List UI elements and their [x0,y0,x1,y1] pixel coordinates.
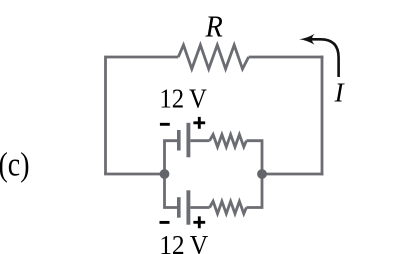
wire top-left segment [106,56,179,59]
svg-text:12 V: 12 V [159,84,207,114]
wire right side [321,56,324,176]
wire top branch right [246,141,262,174]
wire bottom-right [262,173,323,176]
wire top branch middle [190,139,209,142]
wire bottom branch middle [190,206,209,209]
battery B2 positive plate [186,190,190,224]
svg-text:I: I [334,77,346,107]
battery B2 minus sign [160,221,170,224]
current arrow [299,34,338,77]
svg-text:12 V: 12 V [159,230,208,254]
wire left side [104,56,107,174]
node left junction [160,169,170,179]
battery B1 plus sign [193,117,205,129]
battery B2 plus sign [193,216,205,228]
svg-text:R: R [205,9,223,44]
battery B2 negative plate [177,197,181,218]
resistor R [178,45,248,69]
battery B1 minus sign [160,123,170,126]
svg-text:(c): (c) [0,147,30,184]
node right junction [257,169,267,179]
wire bottom branch left [165,174,178,208]
resistor bottom branch [210,201,247,213]
wire bottom branch right [246,174,262,208]
wire top-right segment [249,56,324,59]
battery B1 positive plate [186,123,190,158]
wire bottom-left [104,173,164,176]
wire top branch left [165,141,178,174]
resistor top branch [210,135,247,147]
battery B1 negative plate [177,130,181,151]
